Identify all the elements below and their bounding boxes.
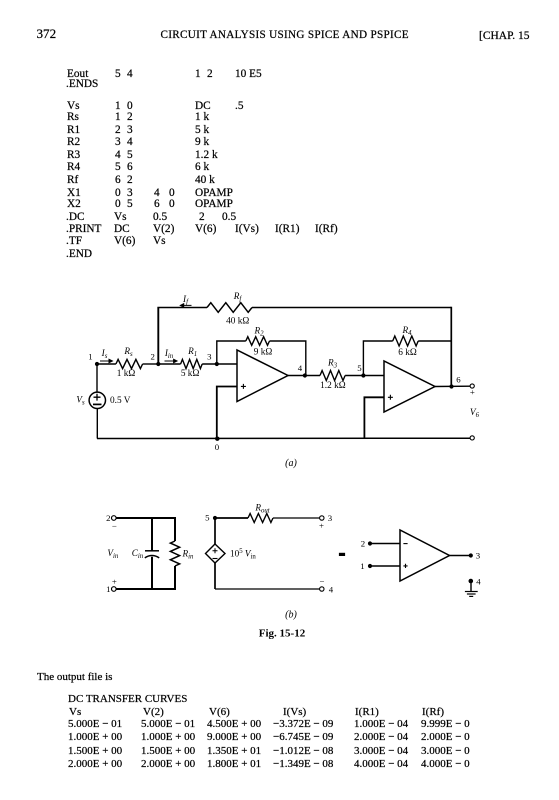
wire input 1 to op-amp	[370, 565, 400, 567]
wire node5 to Rout	[215, 517, 248, 519]
wire source diamond to bottom	[214, 563, 216, 589]
header: page number	[37, 28, 57, 39]
svg-text:R1: R1	[187, 346, 197, 358]
svg-text:Rs: Rs	[123, 346, 133, 358]
wire top rail right of Rf	[252, 307, 451, 309]
wire node2 to R1	[158, 363, 180, 365]
svg-text:5: 5	[357, 363, 362, 373]
wire op-amp U1 plus input to ground rail	[217, 387, 237, 439]
svg-text:R2: R2	[253, 326, 264, 338]
wire op-amp U2 plus input down to ground rail	[364, 397, 384, 438]
svg-text:1.2 kΩ: 1.2 kΩ	[320, 381, 346, 391]
resistor R4	[393, 336, 419, 346]
svg-text:1: 1	[106, 584, 110, 594]
dependent source plus sign	[213, 548, 218, 553]
op-amp U2	[384, 361, 435, 412]
arrow Iin	[165, 359, 178, 362]
wire input 2 to op-amp	[370, 543, 400, 545]
svg-text:2: 2	[150, 352, 154, 362]
svg-text:(b): (b)	[285, 610, 297, 621]
resistor Rf	[207, 303, 252, 313]
netlist listing	[0, 0, 1, 1]
wire Rin bottom lead	[174, 566, 176, 589]
op-amp symbol minus sign	[403, 543, 407, 545]
dependent source minus sign	[213, 558, 218, 560]
resistor Rin	[170, 541, 179, 566]
input terminal dot 2	[368, 541, 372, 545]
op-amp U1 plus sign	[241, 384, 246, 389]
svg-text:4: 4	[476, 577, 481, 587]
dependent source diamond 10^5 Vin	[206, 544, 226, 563]
svg-text:Rin: Rin	[182, 549, 195, 561]
op-amp symbol triangle	[400, 530, 450, 581]
node 2 junction dot	[156, 362, 160, 366]
output terminal lower	[470, 436, 474, 440]
output intro	[37, 672, 112, 683]
wire top rail left of Rf	[157, 307, 207, 309]
svg-text:6 kΩ: 6 kΩ	[398, 348, 417, 358]
wire node1 to Rs	[97, 363, 116, 365]
node 1 junction dot	[95, 362, 99, 366]
svg-text:3: 3	[207, 352, 212, 362]
wire R3 to node5 and U2 minus input	[345, 375, 384, 377]
svg-text:1: 1	[360, 561, 364, 571]
svg-text:(a): (a)	[285, 458, 297, 469]
header: chapter	[479, 31, 529, 42]
wire (b) bottom to terminal 4	[215, 588, 320, 590]
equals sign between models	[339, 553, 345, 556]
arrow If	[180, 304, 191, 307]
svg-text:Fig. 15-12: Fig. 15-12	[259, 628, 306, 640]
node 0 junction dot	[215, 437, 219, 441]
wire node5 down to source diamond	[214, 518, 216, 544]
svg-text:3: 3	[328, 513, 333, 523]
svg-text:Cin: Cin	[132, 548, 144, 560]
wire node2 vertical to top rail	[157, 308, 159, 365]
svg-text:0.5 V: 0.5 V	[110, 396, 131, 406]
svg-text:2: 2	[106, 513, 110, 523]
svg-text:4: 4	[298, 363, 303, 373]
resistor R3	[320, 371, 345, 381]
wire Rin top lead	[174, 518, 176, 541]
wire R1 to node3 and op-amp U1 minus input	[202, 363, 237, 365]
wire terminal 4 to ground	[470, 581, 472, 591]
resistor R1	[181, 359, 203, 368]
svg-text:2: 2	[361, 539, 365, 549]
op-amp symbol plus sign	[403, 564, 407, 568]
terminal 2 circle	[112, 516, 117, 521]
output table	[0, 0, 1, 1]
svg-text:9 kΩ: 9 kΩ	[254, 348, 273, 358]
wire right vertical from top rail to node6	[450, 307, 452, 387]
terminal 4 circle	[320, 587, 324, 591]
node 5 junction dot	[361, 373, 365, 377]
bottom ground rail wire	[97, 437, 470, 439]
node 3 junction dot	[215, 362, 219, 366]
svg-text:Vin: Vin	[107, 548, 119, 560]
wire U2 output to node6 and terminal	[435, 385, 470, 387]
svg-text:Iin: Iin	[164, 348, 174, 360]
svg-text:+: +	[470, 387, 475, 397]
op-amp U1	[237, 350, 288, 402]
ground symbol	[465, 592, 478, 597]
svg-text:5: 5	[205, 513, 210, 523]
svg-text:R3: R3	[327, 358, 338, 370]
wire source Vs down to ground rail	[96, 409, 98, 439]
output terminal upper	[470, 384, 474, 388]
wire op-amp output	[450, 555, 472, 557]
terminal 1 circle	[112, 587, 117, 592]
svg-text:40 kΩ: 40 kΩ	[226, 317, 249, 327]
input terminal dot 1	[368, 564, 372, 568]
svg-text:0: 0	[215, 442, 220, 452]
svg-text:1: 1	[88, 352, 92, 362]
terminal 3 circle	[320, 516, 324, 520]
svg-text:V6: V6	[470, 408, 480, 419]
svg-text:+: +	[319, 521, 324, 531]
output terminal dot 3	[469, 553, 473, 557]
svg-text:−: −	[320, 577, 325, 587]
header: book title	[161, 30, 409, 41]
wire node1 down to source Vs	[96, 364, 98, 392]
resistor Rout	[248, 514, 273, 523]
wire node5 up to R4 branch	[363, 341, 392, 376]
svg-text:Vs: Vs	[76, 395, 85, 407]
node 4 junction dot	[303, 373, 307, 377]
svg-text:1 kΩ: 1 kΩ	[117, 369, 136, 379]
wire Rs to node2	[143, 363, 159, 365]
wire capacitor Cin top lead	[151, 518, 153, 551]
arrow Is	[100, 359, 112, 362]
svg-text:3: 3	[476, 551, 481, 561]
ground terminal dot 4	[469, 579, 474, 584]
wire (b) bottom rail left network	[116, 588, 176, 590]
wire R4 to right vertical	[418, 340, 451, 342]
node 6 junction dot	[449, 384, 453, 388]
svg-text:105 Vin: 105 Vin	[230, 548, 256, 560]
svg-text:6: 6	[456, 375, 461, 385]
capacitor Cin plates	[145, 551, 159, 558]
voltage source Vs	[89, 392, 105, 408]
svg-text:Rf: Rf	[233, 291, 243, 303]
svg-text:Is: Is	[101, 348, 108, 360]
wire Rout to terminal 3	[273, 517, 320, 519]
wire (b) top rail left network	[116, 517, 176, 519]
wire U1 output to node4 and R3	[288, 375, 320, 377]
op-amp U2 plus sign	[388, 395, 393, 400]
svg-text:4: 4	[329, 585, 334, 595]
svg-text:+: +	[112, 577, 117, 587]
wire node3 up to R2 branch	[217, 341, 246, 364]
node 5 dot (b)	[213, 516, 217, 520]
svg-text:5 kΩ: 5 kΩ	[181, 369, 200, 379]
resistor R2	[246, 337, 270, 346]
svg-text:−: −	[112, 521, 117, 531]
resistor Rs	[116, 359, 143, 368]
wire capacitor Cin bottom lead	[151, 557, 153, 589]
wire R2 to node4	[270, 341, 306, 376]
svg-text:Rout: Rout	[254, 503, 270, 515]
